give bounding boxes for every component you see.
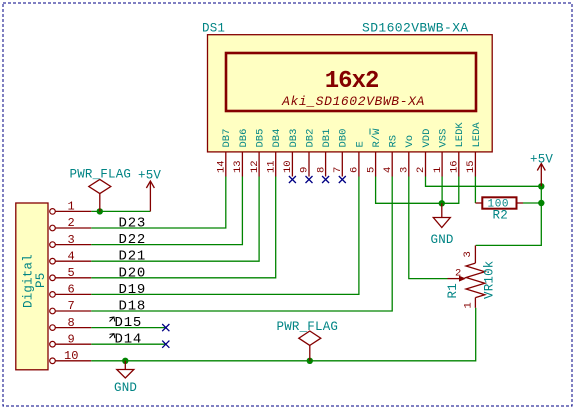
wire GND bottom row (91, 308, 475, 361)
pin 3 of P5 (50, 233, 92, 248)
resistor R2 (475, 197, 523, 208)
svg-text:VDD: VDD (421, 129, 433, 148)
svg-text:8: 8 (68, 316, 75, 330)
svg-text:6: 6 (349, 167, 361, 173)
svg-text:R/W: R/W (371, 128, 383, 148)
pin 6 of P5 (50, 283, 92, 298)
svg-text:2: 2 (455, 268, 461, 280)
svg-text:LEDK: LEDK (454, 122, 466, 148)
+5V symbol top-right (537, 164, 545, 187)
wire D19 net (91, 177, 359, 295)
pin 16 LEDK of DS1 (449, 122, 467, 177)
wire R/W to GND net (376, 177, 459, 204)
junction R2 +5V (538, 200, 544, 206)
junction row1 PWR_FLAG (97, 208, 103, 214)
svg-text:Vo: Vo (404, 135, 416, 148)
svg-text:13: 13 (232, 160, 244, 173)
label Digital P5 (22, 254, 49, 308)
svg-text:11: 11 (265, 160, 277, 173)
wire VDD to +5V net (426, 177, 542, 187)
no-connect X on pin 7 (339, 176, 346, 183)
junction bottom PWR_FLAG (307, 358, 313, 364)
svg-text:DB5: DB5 (255, 129, 267, 148)
svg-text:D19: D19 (119, 282, 147, 298)
svg-text:D20: D20 (119, 265, 147, 281)
pin 1 VSS of DS1 (432, 129, 450, 177)
svg-text:P5: P5 (34, 273, 48, 288)
pin 5 of P5 (50, 266, 92, 281)
pin 10 of P5 (50, 349, 92, 364)
wire D15 net (91, 327, 166, 329)
svg-text:SD1602VBWB-XA: SD1602VBWB-XA (362, 21, 469, 36)
pin 8 of P5 (50, 316, 92, 331)
svg-text:3: 3 (68, 233, 75, 247)
svg-text:4: 4 (382, 167, 394, 173)
svg-text:LEDA: LEDA (471, 122, 483, 148)
wire D22 net (91, 177, 242, 245)
svg-text:7: 7 (332, 167, 344, 173)
svg-text:1: 1 (68, 200, 75, 214)
wire D21 net (91, 177, 259, 262)
svg-text:Aki_SD1602VBWB-XA: Aki_SD1602VBWB-XA (281, 94, 425, 109)
svg-text:3: 3 (462, 251, 474, 257)
pin 6 E of DS1 (349, 141, 367, 176)
junction +5V right upper (538, 183, 544, 189)
no-connect X on pin 10 (289, 176, 296, 183)
no-connect X on D15 wire end (162, 324, 169, 331)
svg-text:GND: GND (431, 233, 454, 247)
net label D15 (110, 315, 143, 331)
svg-text:DB4: DB4 (271, 129, 283, 148)
pin 14 DB7 of DS1 (216, 129, 234, 177)
svg-text:16x2: 16x2 (325, 68, 379, 95)
+5V symbol top-left (146, 181, 154, 211)
wire D18 net (91, 177, 392, 312)
pin 4 RS of DS1 (382, 135, 400, 177)
svg-text:GND: GND (114, 381, 137, 395)
pin 3 Vo of DS1 (399, 135, 417, 177)
power flag symbol bottom (299, 331, 321, 361)
wire D14 net (91, 343, 166, 345)
svg-text:R2: R2 (493, 209, 508, 223)
power flag symbol top-left (89, 179, 111, 211)
svg-text:R1: R1 (446, 283, 460, 298)
svg-text:3: 3 (399, 167, 411, 173)
svg-text:7: 7 (68, 299, 75, 313)
no-connect X on pin 9 (306, 176, 313, 183)
svg-text:D14: D14 (115, 332, 143, 348)
svg-text:D15: D15 (115, 315, 143, 331)
svg-text:5: 5 (68, 266, 75, 280)
svg-text:D18: D18 (119, 299, 147, 315)
svg-text:2: 2 (68, 216, 75, 230)
junction GND mid (439, 200, 445, 206)
svg-text:DB1: DB1 (321, 129, 333, 148)
pin 9 of P5 (50, 332, 92, 347)
ground symbol bottom-left (117, 361, 134, 378)
net label D14 (110, 332, 143, 348)
svg-text:+5V: +5V (530, 152, 553, 166)
svg-text:+5V: +5V (138, 168, 161, 182)
ground symbol mid-right (433, 203, 450, 227)
svg-text:8: 8 (315, 167, 327, 173)
svg-text:VR10k: VR10k (483, 260, 497, 299)
svg-text:PWR_FLAG: PWR_FLAG (277, 320, 339, 334)
potentiometer R1 VR10k (448, 245, 485, 307)
svg-text:DB0: DB0 (338, 129, 350, 148)
no-connect X on pin 8 (322, 176, 329, 183)
svg-text:D23: D23 (119, 216, 147, 232)
svg-text:DB6: DB6 (238, 129, 250, 148)
svg-text:DB7: DB7 (221, 129, 233, 148)
pin 4 of P5 (50, 249, 92, 264)
pin 5 R/W of DS1 (365, 128, 383, 177)
svg-text:1: 1 (463, 302, 475, 308)
svg-text:D22: D22 (119, 232, 147, 248)
pin 8 DB1 of DS1 (315, 129, 333, 177)
pin 15 LEDA of DS1 (465, 122, 483, 177)
wire D23 net (91, 177, 226, 229)
pin 1 of P5 (50, 200, 92, 215)
wire R2 to +5V (523, 202, 541, 204)
svg-text:VSS: VSS (438, 129, 450, 148)
svg-text:14: 14 (216, 160, 228, 173)
svg-text:4: 4 (68, 249, 75, 263)
pin 2 of P5 (50, 216, 92, 231)
wire +5V row1 (91, 210, 150, 212)
svg-text:DB3: DB3 (288, 129, 300, 148)
svg-text:PWR_FLAG: PWR_FLAG (70, 167, 132, 181)
svg-text:6: 6 (68, 283, 75, 297)
svg-text:12: 12 (249, 160, 261, 173)
svg-text:1: 1 (432, 167, 444, 173)
wire Vo to wiper (409, 177, 448, 279)
wire LEDA to R2 (474, 177, 476, 204)
pin 7 DB0 of DS1 (332, 129, 350, 177)
svg-text:10: 10 (64, 349, 78, 363)
svg-text:DS1: DS1 (202, 22, 225, 36)
junction bottom GND (122, 358, 128, 364)
wire +5V down to VR pin3 (476, 186, 542, 245)
svg-text:RS: RS (388, 135, 400, 148)
svg-text:E: E (354, 141, 366, 147)
svg-text:16: 16 (449, 160, 461, 173)
svg-text:2: 2 (415, 167, 427, 173)
svg-text:15: 15 (465, 160, 477, 173)
svg-text:9: 9 (68, 332, 75, 346)
pin 7 of P5 (50, 299, 92, 314)
svg-text:DB2: DB2 (304, 129, 316, 148)
no-connect X on D14 wire end (162, 341, 169, 348)
wire VSS to GND net (441, 177, 443, 204)
pin 11 DB4 of DS1 (265, 129, 283, 177)
wire D20 net (91, 177, 275, 278)
connector P5 body (16, 203, 48, 370)
svg-text:5: 5 (365, 167, 377, 173)
svg-text:9: 9 (299, 167, 311, 173)
pin 12 DB5 of DS1 (249, 129, 267, 177)
svg-text:D21: D21 (119, 249, 147, 265)
pin 2 VDD of DS1 (415, 129, 433, 177)
pin 9 DB2 of DS1 (299, 129, 317, 177)
LCD module DS1 body (208, 35, 493, 152)
pin 13 DB6 of DS1 (232, 129, 250, 177)
pin 10 DB3 of DS1 (282, 129, 300, 177)
svg-text:10: 10 (282, 160, 294, 173)
